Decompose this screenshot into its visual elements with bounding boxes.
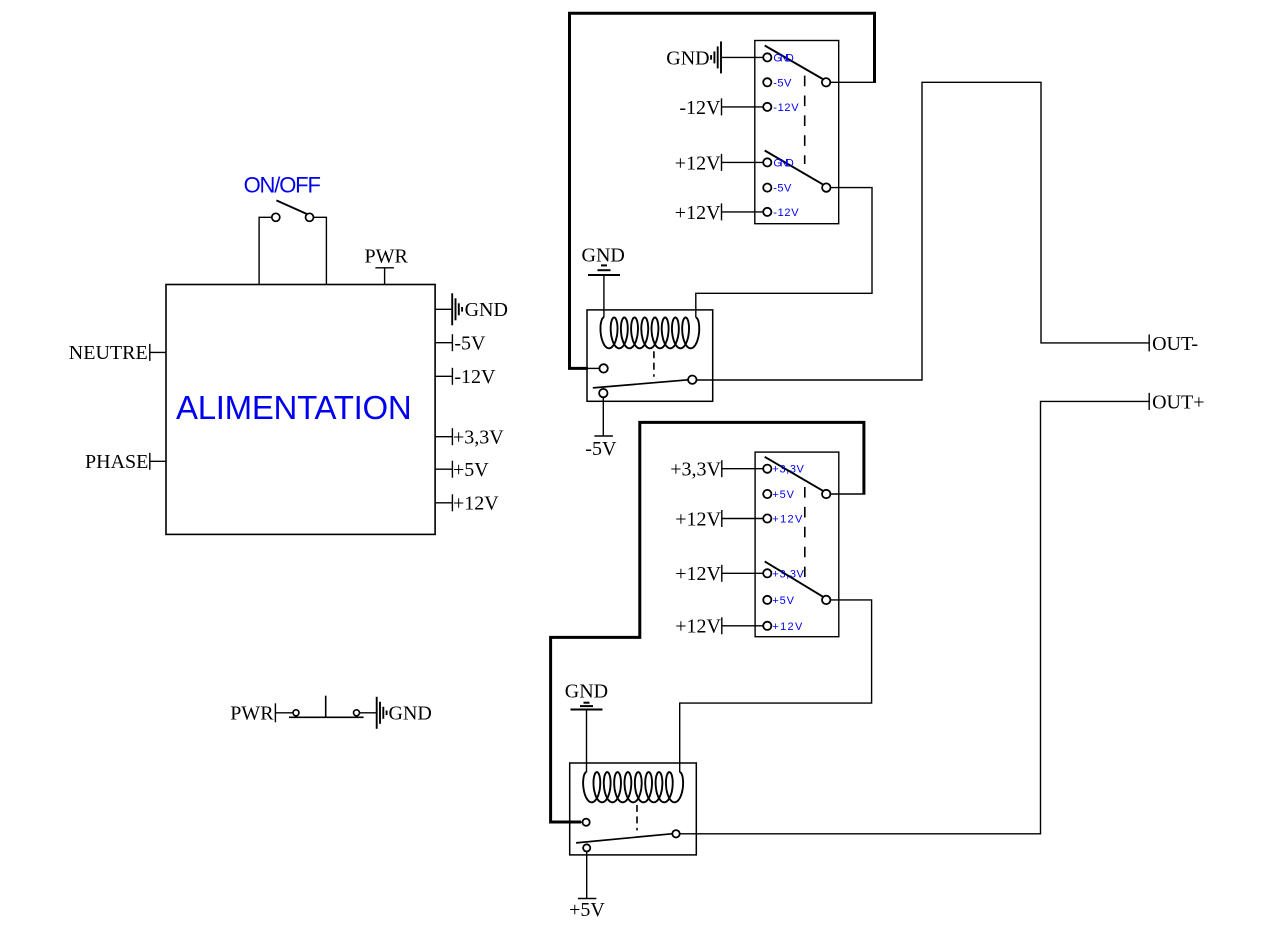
pin +12V feeding SW2 contact 3 (721, 510, 723, 527)
pin NEUTRE (150, 344, 166, 361)
svg-text:-5V: -5V (454, 333, 486, 355)
ground symbol GND (relay K1 coil) (588, 265, 620, 275)
svg-text:OUT+: OUT+ (1152, 392, 1204, 414)
wire (259, 217, 272, 284)
pin PWR (top of ALIMENTATION) (375, 268, 394, 285)
wire (722, 211, 764, 213)
wire (coil left lead) (586, 710, 588, 773)
svg-text:+5V: +5V (453, 459, 489, 481)
relay K2 common (672, 830, 679, 837)
svg-text:+12V: +12V (675, 202, 721, 224)
svg-text:+12V: +12V (675, 152, 721, 174)
wire (SW2 common A stub) (830, 493, 865, 495)
svg-text:+3,3V: +3,3V (670, 459, 721, 481)
relay K2 link (dashed) (636, 805, 638, 831)
svg-text:GND: GND (773, 157, 793, 169)
selector SW2 gang link (dashed) (804, 487, 806, 577)
pin -12V feeding SW1 (721, 98, 723, 115)
relay K1 contact NC (599, 389, 607, 397)
selector SW2 contact 1 (763, 465, 771, 473)
svg-text:PWR: PWR (365, 246, 409, 268)
selector SW2 common B (822, 596, 830, 604)
wire (coil left lead) (603, 275, 605, 318)
svg-text:PHASE: PHASE (85, 451, 148, 473)
selector SW2 contact 4 (763, 569, 771, 577)
svg-text:PWR: PWR (230, 703, 274, 725)
selector SW2 contact 5 (763, 596, 771, 604)
selector SW1 contact 1 (763, 53, 771, 61)
pin OUT+ (1148, 393, 1150, 410)
selector SW1 contact 5 (763, 184, 771, 192)
wire (722, 468, 763, 470)
selector SW1 contact 2 (763, 78, 771, 86)
svg-text:GND: GND (389, 703, 432, 725)
switch ON/OFF (272, 200, 314, 221)
pin +3,3V (ALIMENTATION output) (435, 428, 452, 445)
svg-text:-12V: -12V (679, 97, 721, 119)
svg-text:+12V: +12V (453, 493, 499, 515)
relay K1 lever (593, 380, 689, 388)
selector SW1 contact 6 (763, 208, 771, 216)
wire (thick net: SW1 common A to relay K1 NO contact) (570, 13, 875, 368)
svg-text:GND: GND (773, 52, 793, 64)
svg-text:-12V: -12V (773, 102, 799, 114)
selector SW1 contact 3 (763, 103, 771, 111)
svg-text:+12V: +12V (675, 563, 721, 585)
selector SW1 lever B (765, 151, 823, 185)
selector SW1 common A (822, 78, 830, 86)
svg-text:+3,3V: +3,3V (772, 568, 804, 580)
wire (relay K2 common to OUT+) (680, 401, 1149, 833)
pin GND (ALIMENTATION output, ground marker) (435, 293, 462, 325)
pin +5V (ALIMENTATION output) (435, 461, 452, 478)
relay K2 coil (583, 772, 683, 802)
pin +5V (relay K2 NC) (586, 852, 588, 899)
relay K1 coil (601, 318, 700, 349)
selector SW1 contact 4 (763, 158, 771, 166)
pin PHASE (150, 453, 166, 470)
wire (722, 106, 764, 108)
wire (588, 367, 599, 369)
selector SW1 lever A (765, 46, 823, 80)
svg-text:+5V: +5V (772, 489, 794, 501)
pushbutton PWR-GND (289, 696, 364, 718)
ground pin GND (pushbutton right) (377, 697, 387, 729)
svg-text:+12V: +12V (675, 616, 721, 638)
wire (275, 712, 293, 714)
svg-text:+12V: +12V (772, 621, 803, 633)
svg-text:-12V: -12V (773, 207, 799, 219)
relay K2 lever (576, 834, 672, 843)
relay K1 link (dashed) (653, 351, 655, 377)
selector SW2 common A (822, 490, 830, 498)
pin +12V (ALIMENTATION output) (435, 494, 452, 511)
selector switch SW1 (negative rail selector) body (755, 41, 839, 224)
relay K1 common (688, 376, 696, 384)
pin -5V (relay K1 NC) (602, 397, 604, 436)
selector SW2 contact 3 (763, 514, 771, 522)
ground symbol GND (relay K2 coil) (571, 703, 603, 710)
selector SW1 gang link (dashed) (804, 76, 806, 164)
wire (relay K1 common to OUT-) (697, 82, 1150, 380)
svg-text:-12V: -12V (454, 366, 496, 388)
svg-text:+12V: +12V (675, 508, 721, 530)
pin -5V (ALIMENTATION output) (435, 334, 452, 351)
svg-text:+5V: +5V (569, 899, 605, 921)
svg-text:ALIMENTATION: ALIMENTATION (176, 389, 412, 426)
relay K2 contact NO (583, 819, 590, 826)
relay K2 contact NC (583, 844, 590, 851)
svg-text:NEUTRE: NEUTRE (69, 342, 148, 364)
pin +12V feeding SW1 contact 4 (721, 154, 723, 171)
pin +12V feeding SW2 contact 6 (721, 617, 723, 634)
ground pin GND feeding SW1 (711, 41, 721, 73)
selector SW2 contact 2 (763, 490, 771, 498)
svg-text:GND: GND (582, 244, 625, 266)
wire (722, 572, 763, 574)
svg-text:+3,3V: +3,3V (772, 464, 804, 476)
power supply block ALIMENTATION (166, 285, 435, 535)
selector switch SW2 (positive rail selector) body (755, 452, 839, 637)
wire (580, 821, 583, 823)
selector SW2 lever A (765, 457, 823, 491)
wire (SW1 common B to relay K1 coil) (696, 188, 872, 318)
relay K1 body (587, 310, 713, 401)
pin PWR (pushbutton left) (274, 703, 276, 722)
wire (360, 712, 377, 714)
svg-text:GND: GND (666, 47, 709, 69)
svg-text:ON/OFF: ON/OFF (244, 172, 321, 197)
wire (722, 625, 763, 627)
svg-text:-5V: -5V (773, 77, 792, 89)
wire (721, 56, 763, 58)
relay K2 body (570, 763, 697, 855)
svg-text:+3,3V: +3,3V (453, 427, 504, 449)
wire (SW1 common A stub) (830, 81, 876, 83)
wire (722, 518, 763, 520)
svg-text:GND: GND (565, 680, 608, 702)
relay K1 contact NO (599, 364, 607, 372)
svg-text:+12V: +12V (772, 514, 803, 526)
svg-text:GND: GND (465, 299, 508, 321)
selector SW1 common B (822, 183, 830, 191)
pin OUT- (1148, 334, 1150, 351)
svg-text:+5V: +5V (772, 595, 794, 607)
pin +3,3V feeding SW2 (721, 460, 723, 477)
selector SW2 lever B (765, 561, 823, 596)
wire (722, 161, 764, 163)
wire (314, 217, 327, 284)
pin -12V (ALIMENTATION output) (435, 368, 452, 385)
svg-text:-5V: -5V (585, 438, 617, 460)
wire (thick net: SW2 common A to relay K2 NO contact) (551, 422, 864, 822)
wire (SW2 common B to relay K2 coil) (680, 600, 872, 773)
pin +12V feeding SW1 contact 6 (721, 203, 723, 220)
pin +12V feeding SW2 contact 4 (721, 565, 723, 582)
svg-text:-5V: -5V (773, 183, 792, 195)
selector SW2 contact 6 (763, 622, 771, 630)
svg-text:OUT-: OUT- (1152, 333, 1198, 355)
